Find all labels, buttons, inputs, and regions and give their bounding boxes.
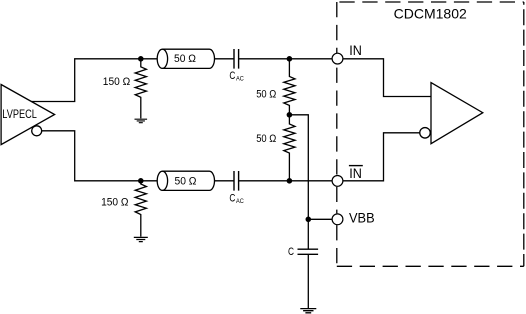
wire: divider midpoint jog to VBB node bbox=[289, 115, 308, 220]
wire: C3 to ground bbox=[307, 254, 309, 308]
CDCM1802 dashed box right edge bbox=[523, 2, 525, 266]
node: junction R3 with IN rail bbox=[287, 56, 293, 62]
terminal IN bbox=[332, 53, 343, 64]
CDCM1802 dashed box left edge segments bbox=[336, 2, 338, 53]
wire: VBB node to C3 bbox=[307, 219, 309, 249]
svg-text:C: C bbox=[288, 246, 294, 258]
svg-text:VBB: VBB bbox=[349, 210, 375, 225]
CDCM1802 dashed box top edge bbox=[337, 1, 524, 3]
wire: C1 to node IN bbox=[239, 58, 333, 60]
wire: Z2 to C2 bbox=[215, 180, 235, 182]
svg-text:50 Ω: 50 Ω bbox=[256, 133, 276, 145]
ground (under R1) bbox=[135, 119, 148, 123]
svg-text:IN: IN bbox=[349, 166, 362, 181]
transmission line Z1 50 ohm (upper cylinder) bbox=[162, 49, 214, 68]
resistor R2 150 ohm (lower) bbox=[135, 181, 146, 237]
svg-text:AC: AC bbox=[236, 198, 244, 205]
svg-text:CDCM1802: CDCM1802 bbox=[394, 6, 467, 21]
terminal VBB bbox=[332, 214, 343, 225]
wire: C2 to node INB bbox=[239, 180, 333, 182]
terminal INB bbox=[332, 176, 343, 187]
wire: VBB node to VBB terminal bbox=[308, 218, 332, 220]
svg-text:C: C bbox=[229, 192, 235, 204]
svg-text:50 Ω: 50 Ω bbox=[174, 53, 196, 65]
node: VBB junction bbox=[306, 217, 312, 223]
wire: LVPECL lower output to lower rail bbox=[42, 131, 158, 181]
svg-text:50 Ω: 50 Ω bbox=[175, 176, 197, 188]
wire: LVPECL top output to transmission line Z1 bbox=[31, 59, 157, 102]
node: junction R4 with INB rail bbox=[287, 178, 293, 184]
wire: IN terminal to internal buffer upper input bbox=[343, 59, 431, 97]
ground (under R2) bbox=[134, 237, 148, 241]
capacitor C3 C (bypass to ground) bbox=[298, 249, 319, 254]
svg-text:C: C bbox=[229, 70, 235, 82]
wire: INB terminal to internal buffer lower input bbox=[343, 133, 420, 181]
ground (under C3) bbox=[300, 309, 316, 313]
svg-text:50 Ω: 50 Ω bbox=[256, 88, 276, 100]
transmission line Z2 50 ohm (lower cylinder) bbox=[162, 171, 214, 190]
CDCM1802 dashed box bottom edge bbox=[337, 265, 524, 267]
op-amp U2 internal buffer triangle bbox=[431, 83, 483, 144]
node: midpoint of R3/R4 divider bbox=[287, 112, 293, 118]
svg-text:LVPECL: LVPECL bbox=[2, 109, 37, 121]
wire: Z1 to C1 bbox=[215, 58, 235, 60]
node: junction of R1 with upper rail bbox=[138, 56, 144, 62]
op-amp U1 LVPECL driver triangle bbox=[1, 85, 55, 145]
svg-text:150 Ω: 150 Ω bbox=[101, 196, 128, 208]
svg-text:150 Ω: 150 Ω bbox=[103, 76, 130, 88]
capacitor C2 CAC (lower AC coupling) bbox=[234, 171, 239, 191]
inversion bubble on LVPECL lower output bbox=[32, 126, 42, 136]
resistor R3 50 ohm (upper termination) bbox=[284, 59, 295, 115]
svg-text:IN: IN bbox=[349, 43, 362, 58]
inversion bubble on buffer lower input bbox=[420, 128, 431, 139]
resistor R1 150 ohm (upper) bbox=[135, 59, 146, 119]
capacitor C1 CAC (upper AC coupling) bbox=[234, 49, 239, 69]
resistor R4 50 ohm (lower termination) bbox=[284, 115, 295, 181]
svg-text:AC: AC bbox=[236, 76, 244, 83]
node: junction of R2 with lower rail bbox=[138, 178, 144, 184]
